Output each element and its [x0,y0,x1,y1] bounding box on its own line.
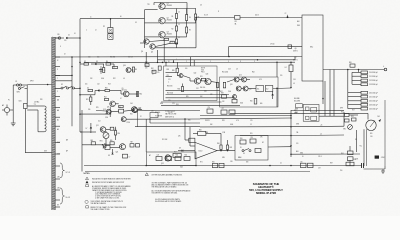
svg-text:R33 470: R33 470 [167,86,172,88]
notes paragraph 2 [86,206,127,211]
svg-text:41: 41 [74,33,76,35]
value label 60 [178,136,180,138]
svg-text:.15: .15 [178,24,180,26]
value label 18 [176,59,177,61]
terminal row 3 [352,79,378,82]
svg-text:IC10: IC10 [199,151,203,153]
wire [13,85,16,110]
transformer secondary tap 15 [55,199,60,201]
value label 64 [296,132,299,134]
IC1 reference B [265,86,273,92]
relay box K1 [303,105,319,122]
resistor R3 [172,37,181,44]
svg-text:D4: D4 [87,87,89,89]
wire [145,22,197,24]
wire [163,8,196,10]
notes header [84,173,91,175]
svg-text:R11: R11 [86,99,89,101]
rectifier D5 [95,89,105,91]
wire [96,110,160,112]
wire [155,9,196,48]
svg-text:R12: R12 [104,97,107,99]
chassis ground [11,121,16,126]
wire [161,100,222,102]
resistor R32 [178,84,184,92]
wire [149,118,151,123]
svg-text:R68: R68 [91,140,94,142]
wire [80,63,114,65]
svg-text:820: 820 [370,133,372,135]
relay contact a [306,107,310,110]
svg-text:NE-2: NE-2 [310,47,313,49]
value label 112 [230,161,233,163]
node [71,56,81,89]
svg-text:10: 10 [302,156,304,158]
resistor R41b [184,155,190,161]
wire [144,10,146,48]
svg-text:680K: 680K [205,132,208,134]
svg-text:R7: R7 [160,37,162,39]
value label 96 [30,81,34,83]
svg-text:14V: 14V [57,177,60,179]
transistor Q19 [133,108,142,113]
value label 57 [205,132,208,134]
svg-text:Q8: Q8 [107,107,109,109]
wire [79,62,81,132]
wire [268,146,291,148]
value label 105 [57,109,59,112]
title block [249,182,283,195]
transistor Q15 [239,75,247,83]
labels board B [222,69,262,82]
value label 77 [250,133,253,135]
resistor R63b [219,163,224,167]
capacitor C8 [207,107,213,113]
svg-text:2N3772: 2N3772 [293,51,298,53]
value label 35 [293,83,295,85]
transformer secondary tap 12 [55,165,60,167]
svg-text:3. SWITCH SHOWN IN OFF POSITI: 3. SWITCH SHOWN IN OFF POSITION. [95,196,122,198]
transformer secondary tap 7 [55,106,60,108]
svg-text:D7: D7 [86,128,88,130]
resistor R14a [136,92,142,97]
svg-text:(50 V): (50 V) [255,15,259,17]
value label 114 [280,163,282,165]
svg-text:Q30: Q30 [123,65,126,67]
svg-text:100: 100 [185,68,187,70]
svg-text:-15: -15 [320,133,322,135]
svg-text:6.2V: 6.2V [259,79,262,81]
value label 75 [340,170,342,172]
resistor R61b [348,157,357,161]
svg-text:F1: F1 [16,81,18,83]
value label 68 [352,110,355,112]
wire [349,146,351,166]
resistor R39 [232,99,237,103]
value label 74 [330,163,333,165]
svg-text:C51 3300 µF: C51 3300 µF [369,76,378,78]
resistor R36 [216,83,218,88]
value label 27 [228,91,231,93]
resistor R31 [200,76,206,81]
svg-text:R51: R51 [251,137,254,139]
wire [110,19,112,28]
relay contact b [306,116,310,119]
value label 8 [113,78,116,80]
svg-text:12: 12 [95,30,97,32]
svg-text:R5: R5 [189,30,191,32]
svg-text:R22: R22 [113,78,116,80]
svg-text:C64 1000 µF: C64 1000 µF [369,108,378,110]
transistor Q13 [205,74,211,85]
svg-text:TO METER: TO METER [155,116,162,118]
resistor R15 [104,144,110,150]
transistor Q17 [243,86,252,91]
wire [115,92,142,110]
value label 59 [162,139,167,141]
transistor Q14 [234,77,239,82]
resistor R48b [250,137,256,143]
svg-text:R20 330: R20 330 [110,57,115,59]
value label 46 [140,116,142,118]
svg-text:D9: D9 [179,148,181,150]
value label 39 [96,107,99,109]
warning symbol [145,173,148,176]
svg-text:C44: C44 [130,103,133,105]
relay coil b [311,116,317,120]
transistor Q18 [103,109,111,114]
value label 1 [88,57,91,59]
resistor R68 [91,140,96,145]
value label 101 [57,69,58,71]
value label 110 [180,166,183,169]
svg-text:R31: R31 [200,76,203,78]
value label 97 [34,101,39,104]
transformer secondary tap 1 [55,37,60,39]
value label 62 [262,142,264,144]
wire [356,130,358,152]
tap voltage labels [57,142,60,206]
svg-text:R34 1500: R34 1500 [167,93,173,95]
resistor R2 [172,24,181,31]
wire [25,109,52,153]
svg-text:10K: 10K [200,96,203,98]
wire [276,61,278,107]
terminal row 1 [352,71,378,74]
svg-text:D3: D3 [96,61,98,63]
wire [145,119,147,152]
wire [363,129,365,166]
svg-text:C12: C12 [196,88,199,90]
relay coil a [311,107,317,112]
svg-text:YEL: YEL [296,132,299,134]
svg-text:R: R [218,11,219,13]
svg-text:X: X [57,69,58,71]
svg-text:C15: C15 [168,100,171,102]
capacitor C30 [300,161,306,167]
svg-text:· P601: · P601 [381,157,386,159]
node [347,69,359,71]
capacitor C31 [308,163,314,167]
output terminal + [383,66,387,71]
svg-text:R43: R43 [176,104,179,106]
resistor R14 [114,127,120,140]
wire [358,70,360,73]
value label 93 [74,33,76,35]
wire [190,127,195,146]
capacitor C6 [110,127,116,131]
diode D10 [272,92,274,100]
svg-text:R38: R38 [221,93,224,95]
svg-text:.05: .05 [123,78,125,80]
svg-text:C14: C14 [145,62,148,64]
circuit board B outline [220,77,278,107]
value label 55 [230,124,233,126]
wire [27,84,52,86]
notes small [201,68,205,74]
resistor R4 [186,14,200,33]
value label 44 [98,121,101,123]
svg-text:R47: R47 [174,152,177,154]
value label 21 [228,61,229,63]
label [165,111,191,122]
wire vertical bus [290,110,292,157]
svg-text:100: 100 [97,57,99,59]
svg-text:R59: R59 [330,163,333,165]
value label 99 [40,99,43,101]
value label 95 [95,30,97,32]
svg-text:J1: J1 [90,17,92,19]
rectifier D4 [87,87,93,91]
terminal row 8 [348,103,378,106]
svg-text:10: 10 [168,61,170,63]
svg-text:M1: M1 [378,116,380,118]
rotary switch S2 [61,84,75,89]
labels right mid [295,109,323,155]
wire [240,17,302,19]
value label 20 [210,61,211,63]
svg-text:MODEL IP-2728: MODEL IP-2728 [256,191,276,195]
svg-text:47: 47 [120,98,122,100]
legend black square [375,156,385,160]
resistor R10 [105,87,110,91]
svg-text:C63 1000 µF: C63 1000 µF [369,104,378,106]
svg-text:0.6: 0.6 [200,5,202,7]
resistor R30 [172,68,179,72]
wire [160,110,200,112]
value label 72 [302,156,304,158]
wire [79,113,108,115]
transistor Q4 [144,39,149,44]
svg-text:R56: R56 [212,161,215,163]
notes symbol chassis [85,200,124,205]
wire [184,118,189,140]
svg-text:R29: R29 [167,69,170,71]
value label 16 [152,73,154,75]
svg-text:56K: 56K [210,124,212,126]
value label 85 [120,16,122,18]
svg-text:WHT: WHT [340,108,343,110]
value label 49 [155,116,162,118]
svg-text:R45: R45 [185,155,188,157]
svg-text:R26: R26 [130,114,133,116]
svg-text:C: C [86,30,87,32]
transformer secondary tap 5 [55,87,60,89]
svg-text:TP1: TP1 [147,4,150,6]
svg-text:R13: R13 [119,107,122,109]
value label 33 [260,103,262,105]
inductor L1 [235,16,241,26]
wire [79,19,144,63]
value label 42 [130,103,133,105]
svg-text:Q13: Q13 [206,74,209,76]
svg-text:Q21: Q21 [116,152,119,154]
svg-text:D11: D11 [85,84,88,86]
resistor R45b [217,143,222,151]
wire [12,110,14,121]
svg-text:8V: 8V [57,205,59,207]
value label 92 [64,40,66,42]
wire [55,87,80,89]
value label 79 [310,47,313,49]
wire [195,17,234,19]
svg-text:NOTE: NOTE [201,68,205,70]
transformer secondary tap 16 [55,206,60,208]
value label 3 [110,57,115,59]
value label 45 [130,114,133,116]
wire [291,153,360,155]
wire [252,88,291,90]
svg-text:1500: 1500 [228,91,231,93]
value label 116 [355,159,358,161]
wire [176,9,178,48]
connector box P3 [296,104,303,108]
svg-text:Q5: Q5 [151,52,153,54]
svg-text:R41 2200: R41 2200 [222,72,228,74]
IC1 reference A [256,86,264,92]
value label 67 [340,108,343,110]
resistor R50b [341,112,349,117]
svg-text:47K: 47K [210,94,212,96]
wire [324,81,326,116]
wire [347,90,349,109]
value label 83 [255,15,259,17]
node [290,115,292,155]
svg-text:R35: R35 [186,96,189,98]
svg-text:120: 120 [57,34,60,36]
value label 91 [60,46,61,48]
svg-text:C43: C43 [293,79,296,81]
value label 43 [105,117,108,119]
value label 7 [101,78,104,80]
svg-text:BLU: BLU [296,151,299,153]
svg-text:6.3V: 6.3V [57,154,60,156]
svg-text:C30: C30 [300,161,303,163]
wire [319,115,344,117]
labels Q6 Q7 [293,48,298,62]
thermal breaker CB1 [19,101,28,109]
resistor R56 [349,62,355,67]
resistor R60b [341,151,353,155]
legend row 2 [86,181,125,184]
svg-text:P1: P1 [8,100,10,102]
value label 109 [66,150,68,153]
capacitor C3 [288,45,292,49]
transformer secondary tap 13 [55,178,60,180]
svg-text:(SEE NOTE 3): (SEE NOTE 3) [165,116,174,118]
svg-text:C23: C23 [172,103,175,105]
wire [137,111,139,127]
capacitor C5 [99,66,106,74]
wire top rail [145,3,188,15]
svg-text:Q15: Q15 [239,75,242,77]
svg-text:R66: R66 [188,120,191,122]
value label 87 [135,22,137,24]
labels K1 [294,98,300,114]
connector stack [103,26,113,39]
wire [333,70,335,117]
value label 41 [120,98,122,100]
svg-text:R60 100: R60 100 [200,87,205,89]
svg-text:2N3055: 2N3055 [167,19,173,21]
value label 14 [145,67,147,69]
svg-text:R54: R54 [341,153,344,155]
svg-text:R71: R71 [200,162,203,164]
svg-text:D12: D12 [98,121,101,123]
wire rail A [55,56,302,59]
svg-text:C53 3300 µF: C53 3300 µF [369,84,378,86]
svg-text:C2: C2 [285,13,287,15]
wire [291,109,344,111]
value label 89 [200,5,202,7]
resistor R9 [131,67,137,72]
svg-text:4.7K: 4.7K [236,120,239,122]
svg-text:RED: RED [297,25,300,27]
switch SW1 [17,87,28,94]
svg-text:22: 22 [140,116,142,118]
svg-text:GRN: GRN [296,124,299,126]
resistor R46b [226,140,232,151]
svg-text:VIO: VIO [296,143,298,145]
wire [294,57,296,60]
capacitor C10 [229,110,235,114]
svg-text:VR2: VR2 [343,129,346,131]
svg-text:8.6V: 8.6V [57,142,60,144]
svg-text:C13: C13 [228,69,231,71]
wire [351,72,353,84]
svg-text:Q1: Q1 [167,3,169,5]
resistor R37 [220,82,226,93]
svg-text:C37: C37 [318,168,321,170]
svg-text:R4: R4 [189,17,191,19]
svg-text:C40: C40 [88,57,91,59]
value label 69 [370,133,372,135]
fuse F1 [16,81,25,86]
value label 115 [318,168,321,170]
svg-text:Y: Y [57,78,58,80]
svg-text:BLK-GRN: BLK-GRN [294,101,300,103]
wire [24,85,27,106]
svg-text:PIN 4: PIN 4 [201,72,205,74]
transistor Q22 [161,155,171,165]
svg-text:2N3055: 2N3055 [167,5,173,7]
resistor R67 [130,142,140,147]
notes right group 2 [152,181,189,188]
value label 108 [66,139,68,142]
separator line [85,171,310,173]
transistor Q11 [96,125,106,132]
resistor R69 [110,140,114,145]
